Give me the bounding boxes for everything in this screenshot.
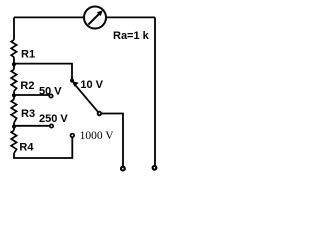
resistor R2 xyxy=(11,69,16,91)
contact 250V xyxy=(50,124,53,127)
meter M1 (galvanometer circle) xyxy=(84,7,106,29)
svg-text:R2: R2 xyxy=(20,80,34,92)
wire left rail top xyxy=(13,17,15,39)
svg-text:R1: R1 xyxy=(21,49,35,61)
wire right rail xyxy=(154,17,156,165)
wire pivot to terminal xyxy=(101,114,123,167)
contact 1000V xyxy=(71,134,75,138)
wire tap A to 10V contact xyxy=(14,64,72,79)
wire tap B (50V) xyxy=(14,94,49,96)
switch pivot xyxy=(98,112,102,116)
svg-text:Ra=1 k: Ra=1 k xyxy=(113,30,150,42)
svg-text:250 V: 250 V xyxy=(39,113,68,125)
junction node B (R2-R3) xyxy=(12,93,16,97)
wire bottom rail xyxy=(14,137,72,158)
wire tap C (250V) xyxy=(14,125,50,127)
resistor R3 xyxy=(11,99,16,122)
switch arm S1 xyxy=(72,81,98,112)
wire left rail R3-R4 xyxy=(13,123,15,131)
resistor R1 xyxy=(11,40,16,57)
terminal middle xyxy=(121,167,125,171)
svg-text:1000 V: 1000 V xyxy=(80,130,115,142)
meter arrow xyxy=(88,10,102,24)
wire left rail R2-R3 xyxy=(13,91,15,99)
contact 10V (dot) xyxy=(70,79,74,83)
svg-text:R3: R3 xyxy=(21,108,35,120)
terminal right xyxy=(153,166,157,170)
junction node A (R1-R2) xyxy=(12,62,16,66)
contact 50V xyxy=(49,94,52,97)
wire top rail left segment xyxy=(14,16,84,18)
junction node C (R3-R4) xyxy=(12,124,16,128)
resistor R4 xyxy=(11,130,16,153)
wire left rail R1-R2 xyxy=(13,57,15,69)
svg-text:10 V: 10 V xyxy=(80,79,103,91)
wire top rail right segment xyxy=(106,16,155,18)
svg-text:R4: R4 xyxy=(19,142,34,154)
svg-text:50 V: 50 V xyxy=(39,85,62,97)
